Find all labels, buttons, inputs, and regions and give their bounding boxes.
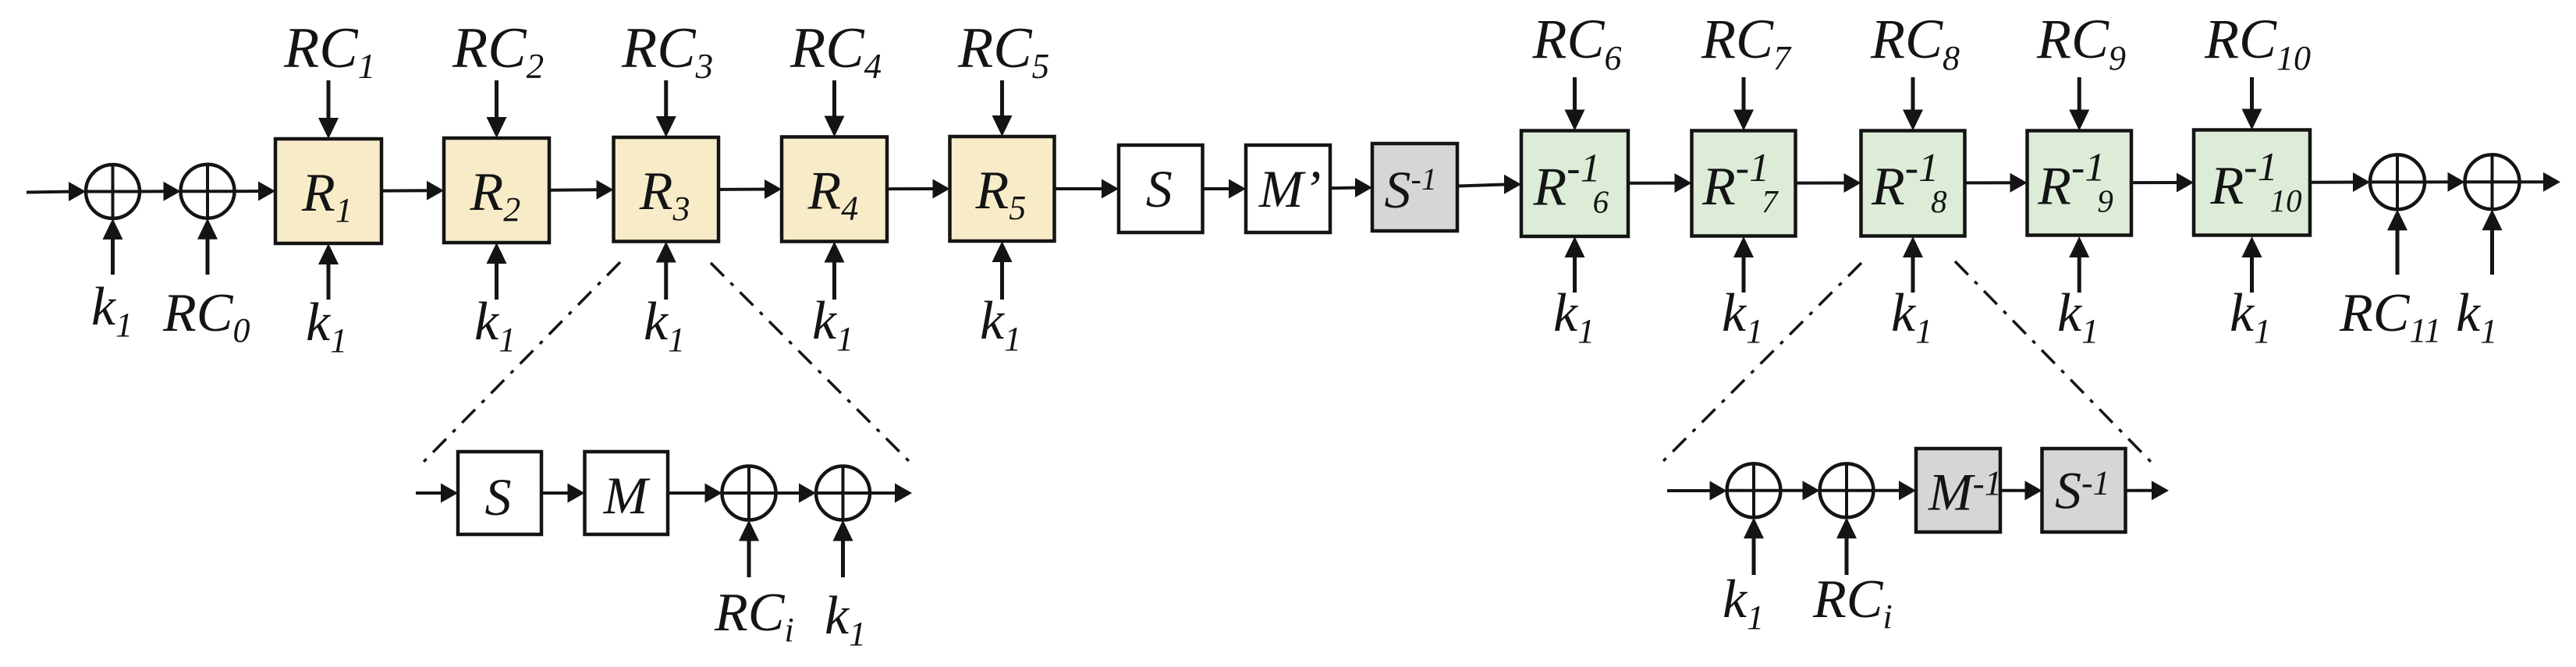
inverse round box R-1 9 (2028, 131, 2132, 236)
wire sub S-1 to output (2126, 481, 2170, 500)
wire R-1 9 to R-1 10 (2131, 173, 2194, 193)
sub box M (585, 452, 669, 534)
xor node A4 (output whitening k1) (2465, 154, 2520, 209)
svg-text:S: S (485, 467, 512, 527)
wire M' to S-1 (1330, 178, 1372, 197)
RC6 label and arrow into R-1 6 (1532, 8, 1622, 131)
inverse round box R-1 8 (1861, 131, 1965, 236)
wire sub M-1 to sub S-1 (2000, 481, 2042, 500)
RC9 label and arrow into R-1 9 (2036, 8, 2126, 131)
wire XOR C1 to XOR C2 (1781, 481, 1820, 500)
sub box M-1 (1916, 449, 2002, 532)
wire sub S to sub M (541, 484, 585, 503)
k1 label and arrow into XOR A1 (91, 218, 133, 344)
wire XOR A2 to R1 (235, 182, 276, 201)
wire input to XOR A1 (27, 182, 86, 201)
RCi label and arrow into XOR B1 (714, 520, 794, 650)
RC4 label and arrow into R4 (789, 16, 882, 137)
wire R4 to R5 (887, 179, 950, 199)
wire input to sub box S (416, 484, 458, 503)
k1 label and arrow into R-1 7 bottom (1722, 236, 1763, 350)
wire S-1 to R-1 6 (1457, 175, 1521, 194)
wire XOR A1 to XOR A2 (140, 182, 181, 201)
k1 label and arrow into R3 bottom (644, 242, 685, 360)
wire R2 to R3 (549, 180, 614, 200)
wire XOR B2 to output (870, 484, 912, 503)
k1 label and arrow into XOR A4 (2456, 209, 2503, 350)
RC1 label and arrow into R1 (283, 16, 375, 139)
k1 label and arrow into R5 bottom (980, 241, 1021, 358)
RC3 label and arrow into R3 (621, 16, 713, 137)
round box R2 (444, 138, 549, 243)
wire XOR C2 to sub box M-1 (1874, 481, 1917, 500)
RC8 label and arrow into R-1 8 (1870, 8, 1960, 131)
sub box S-1 (2042, 449, 2126, 532)
k1 label and arrow into R4 bottom (812, 242, 853, 359)
expansion callout dash-dot line from R3 bottom-left (420, 262, 620, 466)
wire S to M' (1203, 179, 1247, 199)
RC0 label and arrow into XOR A2 (162, 218, 250, 349)
wire R1 to R2 (381, 181, 444, 200)
inverse round box R-1 6 (1521, 131, 1628, 237)
round box R1 (275, 139, 381, 243)
svg-text:RCi: RCi (714, 583, 794, 649)
k1 label and arrow into R-1 6 bottom (1553, 236, 1595, 350)
RC5 label and arrow into R5 (957, 16, 1049, 137)
inverse round box R-1 10 (2194, 130, 2310, 236)
xor node A2 (round constant RC0) (181, 165, 235, 218)
expansion callout dash-dot line from R3 bottom-right (711, 263, 910, 463)
round box R4 (782, 137, 887, 242)
k1 label and arrow into R-1 10 bottom (2230, 236, 2271, 350)
RC11 label and arrow into XOR A3 (2339, 209, 2441, 349)
inverse round box R-1 7 (1692, 131, 1796, 236)
wire R-1 6 to R-1 7 (1628, 173, 1692, 193)
xor node A3 (round constant RC11) (2370, 154, 2425, 209)
xor node B1 (round constant RCi) (722, 467, 776, 520)
RC10 label and arrow into R-1 10 (2204, 8, 2311, 130)
wire XOR B1 to XOR B2 (776, 484, 817, 503)
svg-text:M’: M’ (1258, 159, 1321, 218)
wire R5 to S (1055, 179, 1119, 199)
wire input to XOR C1 (1667, 481, 1727, 501)
k1 label and arrow into R-1 8 bottom (1891, 236, 1932, 350)
xor node B2 (round key k1) (816, 467, 870, 520)
wire R-1 10 to XOR A3 (2310, 172, 2370, 192)
xor node A1 (input whitening k1) (86, 165, 140, 218)
round box R3 (614, 137, 719, 242)
wire XOR A3 to XOR A4 (2425, 172, 2465, 192)
xor node C1 (round key k1) (1727, 463, 1781, 517)
xor node C2 (round constant RCi) (1820, 463, 1874, 517)
middle box S (1119, 145, 1203, 232)
svg-text:S: S (1146, 159, 1173, 218)
sub box S (458, 452, 541, 534)
wire R-1 7 to R-1 8 (1796, 173, 1861, 193)
wire R3 to R4 (719, 179, 782, 199)
wire XOR A4 to output (2520, 172, 2561, 192)
svg-text:M: M (603, 466, 651, 525)
wire sub M to XOR B1 (668, 484, 722, 503)
expansion callout dash-dot line from R-1 8 bottom-left (1661, 263, 1861, 463)
round box R5 (950, 137, 1055, 241)
k1 label and arrow into R1 bottom (306, 243, 347, 360)
k1 label and arrow into XOR C1 (1723, 517, 1764, 637)
RC7 label and arrow into R-1 7 (1701, 8, 1792, 131)
k1 label and arrow into R-1 9 bottom (2057, 236, 2099, 350)
middle box M' (1246, 145, 1330, 232)
svg-text:RCi: RCi (1812, 569, 1893, 636)
RC2 label and arrow into R2 (452, 16, 544, 138)
expansion callout dash-dot line from R-1 8 bottom-right (1955, 261, 2152, 463)
k1 label and arrow into XOR B2 (825, 520, 866, 654)
wire R-1 8 to R-1 9 (1965, 173, 2028, 193)
k1 label and arrow into R2 bottom (474, 243, 516, 359)
RCi label and arrow into XOR C2 (1812, 517, 1893, 636)
middle box S-1 (1372, 144, 1457, 231)
